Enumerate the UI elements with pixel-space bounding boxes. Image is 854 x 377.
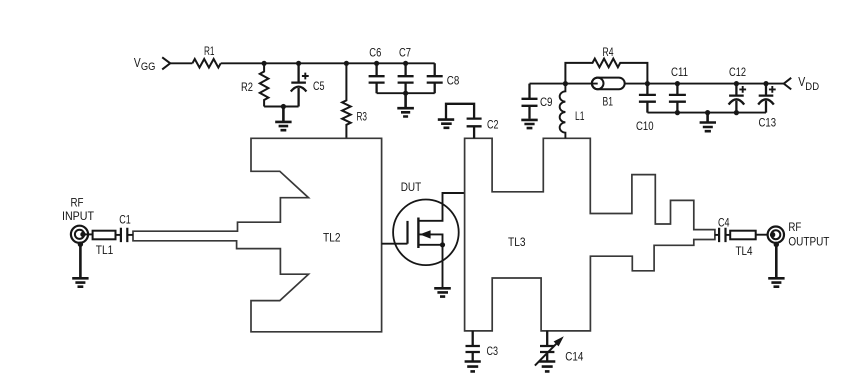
node dot C11 bottom xyxy=(675,110,680,115)
transmission line TL4 xyxy=(730,231,756,240)
capacitor C3 xyxy=(466,331,480,362)
svg-text:C3: C3 xyxy=(487,344,499,358)
svg-text:RF: RF xyxy=(788,220,801,234)
node VDD label xyxy=(798,75,819,93)
node dot C12 bottom xyxy=(734,110,739,115)
node dot C7 xyxy=(403,61,408,66)
inductor L1 xyxy=(560,84,566,139)
node dot C6 xyxy=(374,61,379,66)
svg-text:C5: C5 xyxy=(313,79,325,93)
svg-text:RF: RF xyxy=(71,196,84,210)
svg-text:R3: R3 xyxy=(357,109,368,123)
transmission line TL3 xyxy=(465,138,715,331)
node dot C12 xyxy=(734,81,739,86)
ground RF input xyxy=(72,244,88,287)
ground DUT source xyxy=(434,288,451,296)
svg-text:C8: C8 xyxy=(447,74,460,88)
wire C4 to TL4 xyxy=(726,234,731,236)
resistor R3 xyxy=(342,63,351,138)
wire C1 to microstrip xyxy=(127,234,133,236)
resistor R4 xyxy=(565,59,647,84)
capacitor C9 xyxy=(522,84,538,119)
capacitor C11 xyxy=(669,84,686,113)
svg-text:TL2: TL2 xyxy=(323,230,341,244)
svg-text:TL1: TL1 xyxy=(96,243,114,257)
svg-text:C2: C2 xyxy=(487,117,499,131)
node dot R2 xyxy=(262,61,267,66)
capacitor C10 xyxy=(639,84,656,113)
node dot L1/R4 xyxy=(563,81,568,86)
connector RF input xyxy=(71,226,88,243)
MOSFET arrow xyxy=(420,230,431,238)
svg-text:R4: R4 xyxy=(603,45,614,59)
svg-text:TL3: TL3 xyxy=(508,235,526,249)
wire B1 to VDD xyxy=(625,83,784,85)
capacitor C7 xyxy=(398,63,414,93)
node dot C7 bottom xyxy=(403,91,408,96)
node VGG label xyxy=(134,56,156,73)
MOSFET channel bar xyxy=(417,218,419,249)
wire R1 to C8 (top rail) xyxy=(221,62,435,64)
wire TL2 to gate xyxy=(382,243,408,245)
wire C6-C8 bottom rail xyxy=(377,92,435,94)
svg-text:R2: R2 xyxy=(241,80,253,94)
capacitor C8 xyxy=(427,63,443,93)
capacitor C6 xyxy=(369,63,385,93)
ground C14 xyxy=(539,362,555,372)
svg-text:L1: L1 xyxy=(575,109,585,123)
svg-text:C13: C13 xyxy=(759,116,777,130)
svg-text:INPUT: INPUT xyxy=(62,209,94,223)
resistor R1 xyxy=(192,59,220,68)
transmission line TL1 xyxy=(93,231,116,240)
capacitor C2 xyxy=(446,104,482,139)
ground C7 xyxy=(397,93,414,116)
svg-text:C10: C10 xyxy=(636,119,654,133)
wire connector to TL1 xyxy=(85,233,93,235)
ferrite bead B1 xyxy=(592,78,625,90)
svg-text:B1: B1 xyxy=(603,95,614,109)
node dot input connector ground xyxy=(78,242,83,247)
capacitor C4 xyxy=(719,228,725,242)
node dot R3 xyxy=(344,61,349,66)
node dot output connector ground xyxy=(774,242,779,247)
wire R2 C5 bottom rail xyxy=(264,106,299,108)
wire source to ground xyxy=(442,245,444,287)
ground RF output xyxy=(768,245,784,287)
svg-text:DD: DD xyxy=(805,81,819,93)
wire TL1 to C1 xyxy=(116,234,121,236)
wire TL4 to output connector xyxy=(756,234,768,236)
MOSFET drain xyxy=(418,193,464,221)
svg-text:C7: C7 xyxy=(399,45,411,59)
node dot C13 xyxy=(763,81,768,86)
C14 arrow xyxy=(535,343,557,366)
node dot C10 xyxy=(645,81,650,86)
svg-text:TL4: TL4 xyxy=(736,244,753,258)
svg-text:C12: C12 xyxy=(729,65,746,79)
VDD arrow xyxy=(784,78,791,90)
capacitor C12 (polarized) xyxy=(729,84,745,113)
svg-text:C6: C6 xyxy=(369,45,381,59)
svg-text:C4: C4 xyxy=(718,216,730,230)
transmission line TL2 with input microstrip xyxy=(133,138,382,331)
capacitor C13 (polarized) xyxy=(758,84,774,113)
wire VGG to R1 xyxy=(170,62,193,64)
svg-text:R1: R1 xyxy=(204,44,215,58)
capacitor C5 (polarized) xyxy=(291,63,307,106)
ground C3 xyxy=(465,362,481,372)
svg-text:DUT: DUT xyxy=(401,180,422,194)
VGG arrow xyxy=(162,57,170,69)
MOSFET gate bar xyxy=(406,221,408,244)
svg-text:C11: C11 xyxy=(671,65,688,79)
MOSFET source xyxy=(418,244,442,246)
MOSFET body line xyxy=(418,234,442,244)
MOSFET DUT circle xyxy=(393,200,459,266)
node dot R2/C5 ground xyxy=(281,104,286,109)
connector RF output xyxy=(768,227,784,243)
node dot C5 xyxy=(296,61,301,66)
ground C9 xyxy=(521,120,537,128)
svg-text:GG: GG xyxy=(141,61,156,73)
svg-text:OUTPUT: OUTPUT xyxy=(788,235,829,249)
ground VDD rail xyxy=(700,113,716,132)
svg-text:C14: C14 xyxy=(565,350,583,364)
resistor R2 xyxy=(260,63,269,106)
svg-text:C9: C9 xyxy=(540,95,553,109)
node dot source xyxy=(440,242,445,247)
node dot rail ground xyxy=(705,110,710,115)
wire TL3 to C4 xyxy=(715,234,719,236)
capacitor C14 (variable) xyxy=(540,331,554,362)
ground R2/C5 xyxy=(275,107,291,131)
wire C9 to B1 (rail) xyxy=(530,83,598,85)
node dot C11 xyxy=(675,81,680,86)
svg-text:C1: C1 xyxy=(119,212,131,226)
wire C10-C13 bottom rail xyxy=(647,112,766,114)
capacitor C1 xyxy=(121,228,127,242)
ground C2 xyxy=(438,120,454,128)
